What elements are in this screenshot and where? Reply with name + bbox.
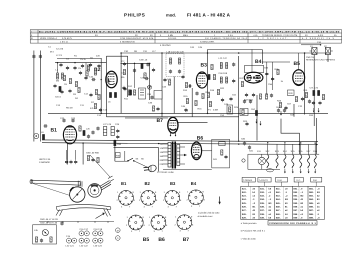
wire B5 drop <box>293 104 295 117</box>
B2 box res right <box>123 69 125 74</box>
svg-text:B3: B3 <box>201 63 208 69</box>
wire mains vertical <box>158 148 160 172</box>
svg-text:S44 .: S44 . <box>276 198 281 201</box>
svg-text:S29 .: S29 . <box>242 217 247 220</box>
wire second bus <box>106 116 239 118</box>
labels under bus left <box>56 104 108 112</box>
svg-text:S32 .: S32 . <box>260 191 265 194</box>
B5 under cap <box>308 99 311 103</box>
svg-text:S61 .: S61 . <box>309 187 314 190</box>
B1 input connector <box>34 133 39 138</box>
svg-text:B5: B5 <box>294 61 301 67</box>
svg-text:S34 .: S34 . <box>260 198 265 201</box>
dial shaft end <box>108 176 114 182</box>
node bus a <box>120 52 122 54</box>
B2 cathode resistor R5 <box>95 89 97 94</box>
switch coil 7 <box>314 154 316 168</box>
tube B3 envelope <box>196 72 207 88</box>
wire left feed <box>55 62 106 64</box>
dial lamp symbol <box>258 154 265 169</box>
mains plug prong2 <box>144 169 150 172</box>
B5 cathode res box <box>288 90 295 96</box>
socket B6 <box>151 215 166 230</box>
B5 drop cluster cap <box>284 106 287 110</box>
B3 bottom cluster cap <box>195 91 198 95</box>
cluster cap C14 <box>99 108 102 112</box>
socket B5 <box>128 215 143 230</box>
node bus c <box>207 52 209 54</box>
svg-text:T.GRAVE: T.GRAVE <box>243 179 253 182</box>
B3 volume pot <box>209 101 211 106</box>
B7 pin arrows <box>170 135 177 137</box>
svg-text:S64 .: S64 . <box>309 198 314 201</box>
panel box <box>33 225 57 244</box>
wire vertical B5 anode <box>304 53 306 115</box>
B5 drop labels <box>277 100 295 117</box>
svg-text:C33 L18: C33 L18 <box>139 59 148 62</box>
trimmer pair 4b <box>98 231 103 236</box>
svg-text:L42 C22: L42 C22 <box>80 245 89 248</box>
FM unit cap e <box>91 158 94 162</box>
IF1 cluster coil <box>141 63 143 68</box>
header box 4 <box>294 177 303 186</box>
B3 left res <box>186 98 188 103</box>
node avc b <box>161 113 163 115</box>
trimmer pair 3b <box>84 238 89 243</box>
power arrow 5 <box>314 169 316 174</box>
tube B7 envelope <box>168 117 178 133</box>
B4-B5 wire vert a <box>266 62 268 95</box>
wire FM unit drop 1 <box>66 143 68 165</box>
node bus b <box>161 52 163 54</box>
right cap b <box>318 101 321 105</box>
power arrows <box>284 169 286 174</box>
svg-text:L27 L28: L27 L28 <box>103 123 112 126</box>
trimmer pair 1a <box>66 238 71 243</box>
tube B1 anode <box>66 126 74 128</box>
power arrow 3 <box>300 169 302 174</box>
front-end cap i <box>97 64 100 68</box>
wire B6 to box <box>202 150 212 152</box>
dial base leg right <box>104 208 111 216</box>
front-end res j <box>86 71 88 76</box>
svg-text:S39 .: S39 . <box>260 217 265 220</box>
svg-text:S57 .: S57 . <box>293 209 298 212</box>
socket B7 pin labels <box>175 216 195 233</box>
IF2 coil d <box>226 77 228 83</box>
wire chassis bus upper <box>42 140 318 142</box>
svg-text:C60 L46 L7 L8 C9: C60 L46 L7 L8 C9 <box>40 218 59 221</box>
svg-text:S59 .: S59 . <box>293 217 298 220</box>
svg-text:S33 .: S33 . <box>260 195 265 198</box>
dial adjust arrow <box>96 213 105 219</box>
tube B2 inner shade <box>108 76 111 83</box>
front-end extra labels <box>55 80 89 101</box>
socket B5 pin labels <box>126 216 146 233</box>
FM unit cap b <box>69 160 72 164</box>
legend circle a <box>116 228 121 233</box>
svg-text:6,3 N: 6,3 N <box>318 34 324 37</box>
right cap a <box>312 101 315 105</box>
svg-text:C71 C72: C71 C72 <box>310 87 319 90</box>
bottom strip line <box>39 221 114 223</box>
wire switch feed horiz <box>115 160 128 162</box>
svg-text:S42 .: S42 . <box>276 191 281 194</box>
IF2 cap <box>232 62 235 66</box>
IF1 cluster cap <box>146 62 149 66</box>
svg-text:C50 C51: C50 C51 <box>306 56 315 59</box>
heater switch <box>127 158 134 161</box>
front-end resistor R1 <box>69 78 71 83</box>
B2 box coil a <box>109 92 111 97</box>
T1 under cap b <box>181 75 184 79</box>
B2 cathode extra res <box>98 94 100 99</box>
svg-text:S35 .: S35 . <box>260 202 265 205</box>
svg-text:CON RADDRIZZAT. M.24 B.M.: CON RADDRIZZAT. M.24 B.M. <box>120 37 154 40</box>
B1 input pin <box>35 135 37 137</box>
svg-text:0,75 M 75: 0,75 M 75 <box>62 37 73 40</box>
mid cluster resistor R11 <box>133 90 135 95</box>
T1 coil a <box>170 58 172 64</box>
parts table frame <box>241 186 324 219</box>
mid cluster box <box>139 88 146 99</box>
plug inner detail <box>150 166 152 171</box>
dial cord diagonal <box>90 155 110 177</box>
mid right cap C64 <box>283 108 286 112</box>
svg-text:B3: B3 <box>170 181 176 186</box>
tube B2 cathode blob <box>108 84 114 85</box>
svg-text:UNITA' F.M.: UNITA' F.M. <box>39 158 51 161</box>
B7 input cap extra <box>150 95 153 99</box>
svg-text:S22 .: S22 . <box>242 191 247 194</box>
right res <box>322 94 324 99</box>
svg-text:B1: B1 <box>51 128 58 134</box>
tube B3 diode plates <box>198 85 201 87</box>
svg-text:VERS. STAND. A: VERS. STAND. A <box>40 37 58 40</box>
left col top cap dark <box>114 141 116 146</box>
svg-text:S56 .: S56 . <box>293 206 298 209</box>
svg-text:S38 .: S38 . <box>260 213 265 216</box>
B4 grid resistor <box>241 81 243 86</box>
mains plug body <box>147 164 157 173</box>
svg-text:S66 .: S66 . <box>309 206 314 209</box>
cap mid x134 <box>133 68 136 72</box>
wire B2 box top <box>106 55 127 57</box>
IF2 cap c <box>232 79 235 83</box>
svg-text:a Tasto premuto: a Tasto premuto <box>241 222 257 225</box>
tube B4 pentode <box>256 76 261 82</box>
B4 screen box <box>245 65 264 72</box>
svg-text:3 4 6: 3 4 6 <box>228 34 234 37</box>
switch coil 3 <box>284 154 286 168</box>
svg-text:ai piedini visti da sotto: ai piedini visti da sotto <box>198 212 220 215</box>
B2 grid junction <box>100 79 102 81</box>
B4-B5 cap a <box>265 72 268 76</box>
IF1 cluster res <box>144 73 146 78</box>
trimmer pair 5b <box>98 238 103 243</box>
wire vertical IF right <box>238 56 240 141</box>
svg-text:L43 C24: L43 C24 <box>94 245 103 248</box>
arrow C62 <box>256 119 258 124</box>
IF1 cluster cap2 <box>152 68 155 72</box>
svg-text:S47 .: S47 . <box>276 209 281 212</box>
switch coil 1 <box>267 154 269 168</box>
osc coil L26 <box>83 130 85 135</box>
tube B7 pin right <box>175 133 177 136</box>
svg-text:R5 1M: R5 1M <box>66 107 73 110</box>
B4-B5 wire horiz <box>262 61 290 63</box>
B1 top cap C20 <box>62 118 65 122</box>
legend circle b <box>116 236 121 241</box>
tube B4 triode1 <box>248 76 252 81</box>
dial drum spindle <box>76 194 78 196</box>
transformer secondary winding <box>177 145 180 166</box>
osc cap C25 <box>87 134 90 138</box>
svg-text:L2 C3: L2 C3 <box>56 54 63 57</box>
wire C34 line <box>301 44 321 46</box>
svg-text:CONNESSIONI DEI PANNELLI S 1: CONNESSIONI DEI PANNELLI S 1 <box>269 222 316 225</box>
wire transformer bottom <box>163 169 212 171</box>
wire vertical B2 grid <box>100 58 102 113</box>
right arrow b <box>318 108 320 113</box>
B3 left bar pair <box>208 74 210 79</box>
B5 drop cluster res <box>279 102 281 107</box>
svg-text:S67 .: S67 . <box>309 209 314 212</box>
T1 coil b <box>179 58 181 64</box>
boxed res a <box>227 105 233 114</box>
power bus dots <box>267 142 316 144</box>
front-end cap C3 <box>66 66 69 70</box>
svg-text:S28 .: S28 . <box>242 213 247 216</box>
mid dark res <box>129 90 131 95</box>
FM unit comp d <box>87 155 89 160</box>
tube B5 cathode <box>296 84 302 85</box>
B2 box cap lower <box>122 86 125 90</box>
label P lamp <box>242 159 245 162</box>
transformer primary winding <box>168 143 171 168</box>
svg-text:L41 C21: L41 C21 <box>66 245 75 248</box>
svg-text:S27 .: S27 . <box>242 209 247 212</box>
wire AVC bus <box>48 112 328 114</box>
front-end mark l <box>57 62 59 64</box>
wire X-box b drop <box>327 55 329 63</box>
power frame top <box>248 153 319 155</box>
B1 top cap C23 <box>71 118 74 122</box>
svg-text:L22 C47: L22 C47 <box>219 57 228 60</box>
svg-text:6,3 SERVIZI 25 V: 6,3 SERVIZI 25 V <box>302 37 335 40</box>
trimmer pair 4a <box>93 231 98 236</box>
svg-text:B6: B6 <box>158 237 165 243</box>
IF2 coil b <box>226 63 228 69</box>
trimmer pair 1b <box>72 238 77 243</box>
cap row b <box>249 99 252 103</box>
IF2 res a <box>211 64 213 69</box>
tube B2 grid dashes <box>108 77 115 82</box>
T1 under res b <box>185 82 187 87</box>
right-mid res b <box>217 89 219 94</box>
panel comp a <box>35 237 37 242</box>
front-end mark k <box>74 62 76 64</box>
socket B3 <box>165 190 180 205</box>
front-end extra res b <box>63 75 65 80</box>
svg-text:F.M.: F.M. <box>313 179 318 182</box>
main schematic wires <box>34 50 330 172</box>
mid right cap C61 <box>277 108 280 112</box>
B4 under res b <box>265 94 267 99</box>
svg-text:S.GEN.CORR.: S.GEN.CORR. <box>200 41 215 44</box>
svg-text:C48 R19: C48 R19 <box>219 72 228 75</box>
front-end cap C7 <box>68 89 71 93</box>
front-end extra cap a <box>59 63 62 67</box>
table row1 dense header text <box>31 30 340 32</box>
front-end extra cap c <box>81 64 84 68</box>
svg-text:c Vista da sotto: c Vista da sotto <box>241 238 257 241</box>
wire L bend to power <box>281 119 299 154</box>
B5 drop arrow <box>280 111 282 116</box>
tube B7 cathode blob <box>170 129 177 131</box>
svg-text:FI 481 A - HI 482 A: FI 481 A - HI 482 A <box>187 13 231 18</box>
T1 cap b <box>178 69 181 73</box>
labels above top bus <box>124 46 203 53</box>
wire B4 output drop <box>256 95 258 141</box>
svg-text:S62 .: S62 . <box>309 191 314 194</box>
socket B3 pin labels <box>163 191 182 209</box>
front-end cap C4 <box>73 66 76 70</box>
svg-text:B1:UCH81 CONVERSIONE-B2:UF89 M: B1:UCH81 CONVERSIONE-B2:UF89 M.F.-B3:UAB… <box>39 30 340 33</box>
FM wire vert a <box>66 150 68 160</box>
dial cord left <box>33 184 70 196</box>
B4-B5 res <box>277 69 279 74</box>
svg-text:S63 .: S63 . <box>309 195 314 198</box>
X-box switch b <box>325 48 333 55</box>
svg-text:S54 .: S54 . <box>293 198 298 201</box>
front-end labels top row <box>48 46 100 62</box>
wire heater feed <box>114 147 159 149</box>
front-end extra coil d <box>88 65 90 71</box>
svg-text:4 GIUGNO/4 B: 4 GIUGNO/4 B <box>120 41 135 44</box>
wire B7 grid line <box>125 117 168 119</box>
tube B1 grids <box>66 130 75 138</box>
svg-text:C8 L5: C8 L5 <box>55 96 62 99</box>
svg-text:S51 .: S51 . <box>293 187 298 190</box>
B3 grid leak res <box>195 100 197 105</box>
wire B4 top <box>251 50 253 73</box>
wire antenna vertical 1 <box>33 51 35 142</box>
transformer tap labels <box>160 143 164 166</box>
FM wire vert b <box>75 150 77 160</box>
osc trim C29 <box>116 135 119 139</box>
cap row a <box>243 99 246 103</box>
power frame bottom <box>248 168 280 170</box>
B2 grid cap C10 <box>91 78 95 81</box>
wire mid vertical x134 <box>134 63 136 88</box>
node bus d <box>238 52 240 54</box>
parts table row texts <box>242 187 321 219</box>
tube B5 grids <box>295 76 303 81</box>
right-mid cap b <box>229 97 232 101</box>
svg-text:S65 .: S65 . <box>309 202 314 205</box>
socket B1 pin labels <box>117 191 136 209</box>
tube B3 grids <box>199 76 206 84</box>
wire vertical mid1 <box>149 63 151 100</box>
svg-text:S37 .: S37 . <box>260 209 265 212</box>
power arrow 2 <box>292 169 294 174</box>
svg-text:S25 .: S25 . <box>242 202 247 205</box>
B3 bottom res <box>202 93 204 98</box>
tiny parts above panel <box>60 221 63 225</box>
svg-text:S69 .: S69 . <box>309 217 314 220</box>
osc coil box2 <box>111 127 114 136</box>
B7 top cap <box>156 107 159 111</box>
wire vertical B3 cathode <box>191 88 193 117</box>
B4 under cap b <box>252 93 255 97</box>
B4-B5 cap b <box>271 77 274 81</box>
svg-text:B7: B7 <box>183 237 190 243</box>
T1 cap a <box>169 69 172 73</box>
node bus e <box>304 52 306 54</box>
wire vertical B3 left <box>207 50 209 114</box>
T1 under cap a <box>163 78 166 82</box>
socket B4 <box>189 190 204 205</box>
svg-text:S52 .: S52 . <box>293 191 298 194</box>
left col res box <box>116 153 121 158</box>
svg-text:B4: B4 <box>191 181 197 186</box>
tube B6 envelope <box>191 142 201 160</box>
svg-text:S55 .: S55 . <box>293 202 298 205</box>
B2 anode decoupling cluster <box>94 103 96 108</box>
power input labels <box>241 138 254 153</box>
svg-text:S41 .: S41 . <box>276 187 281 190</box>
tube B7 grids <box>170 123 177 126</box>
power input cap a <box>243 141 246 145</box>
socket B2 pin labels <box>139 191 158 209</box>
node avc a <box>100 113 102 115</box>
panel comp c <box>50 237 52 242</box>
B5 under res <box>305 92 307 97</box>
wire mid feed <box>121 62 150 64</box>
tube B6 top electrode <box>193 144 199 145</box>
header box 2 <box>258 177 271 186</box>
tap arrow <box>184 154 187 156</box>
svg-text:C66 L49 C67 L50: C66 L49 C67 L50 <box>40 221 58 224</box>
switch coil 6 <box>308 154 310 168</box>
tube B5 anode <box>296 72 303 74</box>
power drop wires <box>268 144 316 154</box>
socket B7 <box>177 215 192 230</box>
B4-B5 labels <box>264 67 284 87</box>
T1 under res <box>168 80 170 85</box>
header box 5 <box>311 177 322 186</box>
svg-text:S68 .: S68 . <box>309 213 314 216</box>
wire B2 box right <box>127 56 129 97</box>
rect box res <box>221 150 223 155</box>
mid cluster resistor R10 <box>128 90 130 95</box>
svg-text:S.O.S.R.: S.O.S.R. <box>168 37 177 40</box>
node mid a <box>134 63 136 65</box>
wire vertical B4 right <box>261 50 263 65</box>
dial base leg left <box>56 210 63 216</box>
dial shaft spring <box>100 181 112 191</box>
svg-text:B2: B2 <box>145 181 151 186</box>
svg-text:C18 C19: C18 C19 <box>94 228 103 231</box>
wire B2 plate <box>120 53 122 113</box>
front-end extra cap e <box>53 84 56 88</box>
front-end cap h <box>89 63 92 67</box>
tube B2 envelope <box>106 71 117 88</box>
wire right to power <box>316 118 318 154</box>
dial rod hub <box>78 181 82 187</box>
IF2 res b <box>213 74 215 79</box>
